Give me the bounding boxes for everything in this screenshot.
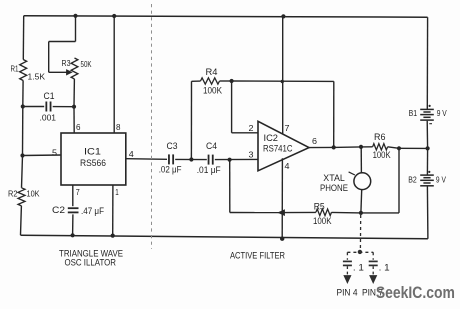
svg-text:. 1: . 1 (379, 263, 390, 274)
svg-text:3: 3 (249, 150, 254, 160)
svg-text:6: 6 (312, 136, 317, 146)
svg-text:B2: B2 (408, 175, 417, 185)
svg-text:100K: 100K (203, 86, 222, 96)
svg-text:.001: .001 (40, 113, 57, 123)
svg-text:RS566: RS566 (80, 158, 106, 168)
svg-text:R6: R6 (374, 132, 386, 142)
svg-text:.47 μF: .47 μF (81, 206, 104, 216)
svg-text:6: 6 (76, 123, 81, 132)
svg-text:2: 2 (249, 123, 254, 133)
svg-text:. 1: . 1 (353, 263, 364, 274)
svg-text:C4: C4 (206, 141, 217, 151)
svg-text:SeekIC.com: SeekIC.com (376, 283, 455, 302)
svg-text:9 V: 9 V (437, 108, 447, 118)
svg-text:4: 4 (285, 161, 290, 171)
svg-text:C3: C3 (167, 141, 178, 151)
svg-text:.01 μF: .01 μF (197, 165, 221, 175)
svg-text:5: 5 (52, 148, 57, 158)
svg-text:R2: R2 (8, 189, 18, 199)
svg-text:C1: C1 (44, 91, 55, 101)
svg-text:.02 μF: .02 μF (159, 164, 182, 174)
svg-text:100K: 100K (373, 150, 391, 160)
svg-text:R5: R5 (314, 202, 325, 212)
svg-text:1: 1 (115, 188, 119, 197)
svg-text:PIN 4: PIN 4 (337, 288, 358, 298)
svg-text:50K: 50K (81, 59, 92, 69)
svg-text:RS741C: RS741C (263, 144, 293, 154)
svg-text:100K: 100K (313, 216, 332, 226)
svg-text:4: 4 (129, 149, 134, 159)
svg-text:8: 8 (116, 123, 121, 132)
svg-text:OSC ILLATOR: OSC ILLATOR (65, 258, 117, 268)
svg-text:7: 7 (285, 123, 290, 133)
svg-text:10K: 10K (27, 189, 40, 199)
svg-text:1.5K: 1.5K (28, 72, 46, 82)
svg-text:9 V: 9 V (436, 175, 446, 185)
svg-text:R4: R4 (206, 67, 218, 77)
svg-text:XTAL: XTAL (323, 173, 345, 183)
svg-text:B1: B1 (409, 108, 418, 118)
svg-text:R3: R3 (62, 58, 71, 68)
svg-text:ACTIVE FILTER: ACTIVE FILTER (230, 251, 285, 261)
svg-text:IC1: IC1 (84, 147, 101, 157)
svg-text:PHONE: PHONE (320, 183, 348, 193)
svg-text:R1: R1 (11, 65, 19, 74)
svg-text:C2: C2 (52, 205, 65, 215)
svg-text:IC2: IC2 (264, 133, 279, 143)
svg-text:7: 7 (76, 188, 80, 197)
